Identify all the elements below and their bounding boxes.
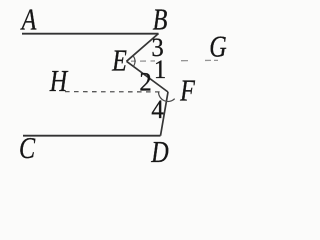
svg-text:H: H xyxy=(49,64,69,99)
svg-text:A: A xyxy=(20,3,37,38)
angle arc at F xyxy=(159,92,175,101)
svg-text:B: B xyxy=(153,3,168,38)
svg-text:C: C xyxy=(19,131,36,166)
svg-text:4: 4 xyxy=(151,96,164,125)
dashed ray EG xyxy=(131,59,218,62)
svg-text:F: F xyxy=(179,74,196,109)
svg-text:2: 2 xyxy=(139,68,151,97)
dashed segment HF xyxy=(65,91,161,93)
segment BE xyxy=(127,34,159,62)
svg-text:G: G xyxy=(209,30,226,65)
line AB (top parallel line) xyxy=(22,33,159,35)
segment FD xyxy=(161,92,169,136)
svg-text:D: D xyxy=(150,135,168,167)
svg-text:E: E xyxy=(111,44,127,79)
line CD (bottom parallel line) xyxy=(23,135,161,137)
segment EF xyxy=(127,61,169,92)
angle arc at E xyxy=(133,56,135,67)
svg-text:3: 3 xyxy=(151,34,163,63)
